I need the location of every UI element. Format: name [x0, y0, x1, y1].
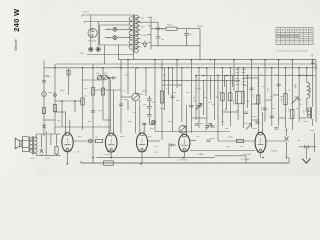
resistor R grid	[55, 147, 58, 155]
wire tube4-5 link	[218, 140, 255, 142]
wire v x56.5	[56, 134, 58, 156]
capacitor C band4	[274, 128, 278, 130]
wire v x128	[127, 60, 129, 110]
wire v x206.9	[206, 68, 208, 126]
svg-text:RGN354: RGN354	[88, 40, 97, 42]
wire v x238.1	[237, 68, 239, 120]
IF label column	[236, 69, 246, 85]
output transformer secondary	[35, 137, 38, 153]
wire hlink g2a	[162, 84, 182, 86]
wire hlink y120	[103, 119, 111, 121]
jack bars	[305, 145, 308, 149]
resistor R coup2	[236, 139, 243, 142]
wire v x210.5	[210, 76, 212, 101]
osc coil	[132, 93, 140, 101]
resistor R5	[101, 88, 104, 95]
resistor R bias	[104, 161, 114, 165]
wire tube3 right link	[148, 140, 160, 142]
resistor R2	[53, 105, 56, 112]
wire tube1 bottom	[67, 152, 69, 163]
svg-text:+300V: +300V	[197, 26, 204, 28]
wire box drop left	[104, 45, 106, 64]
resistor R7	[221, 93, 224, 101]
iron core coil	[307, 107, 311, 118]
wire v x203.5	[203, 80, 205, 115]
wire v x299.1	[298, 68, 300, 122]
RF coil L3	[307, 82, 310, 98]
wire v x191.3	[190, 60, 192, 133]
bus mid link	[162, 79, 240, 81]
wire hlink y90	[93, 89, 121, 91]
wire tube4 bottom	[183, 152, 185, 158]
wire transformer down	[133, 53, 135, 60]
wire v x172.5	[172, 68, 174, 132]
speaker magnet	[22, 137, 29, 152]
wire hlink g3h	[299, 117, 307, 119]
capacitor C12	[263, 108, 267, 110]
wire v x68.5	[68, 68, 70, 95]
wire v x218	[217, 76, 219, 142]
resistor R6	[160, 91, 163, 103]
tube socket table	[276, 28, 313, 45]
arrow over C9	[196, 103, 201, 109]
wire psu bottom edge	[87, 54, 134, 56]
wire grid box top/bottom	[37, 134, 61, 156]
wire box drop right	[118, 45, 120, 60]
wire grid line y127	[55, 126, 111, 128]
output transformer primary	[29, 137, 32, 153]
tube V4	[179, 132, 190, 152]
pot arrow right	[292, 97, 299, 104]
wire v x258.2	[257, 68, 259, 125]
antenna coil	[42, 92, 47, 97]
rectifier tube RGN354	[88, 28, 97, 37]
wire v x265	[264, 60, 266, 122]
capacitor C ant	[42, 81, 46, 83]
bus D chassis	[81, 161, 289, 163]
antenna lead	[43, 61, 45, 137]
tube V3	[136, 131, 147, 152]
capacitor C7	[170, 96, 174, 98]
pot arrow band	[246, 124, 252, 130]
wire psu return	[151, 29, 200, 60]
wire v x243.6	[243, 68, 245, 128]
dial lamp L2	[113, 36, 117, 40]
wire v x271.8	[271, 68, 273, 126]
transformer T1 secondary winding	[135, 15, 138, 53]
heater ground symbol	[143, 41, 147, 48]
wire hlink g3c	[299, 75, 313, 77]
capacitor C grid4	[169, 144, 176, 147]
wire v x314.5	[314, 133, 316, 152]
wire v x75	[74, 101, 76, 112]
capacitor C4	[91, 111, 95, 113]
svg-text:Mende: Mende	[14, 39, 18, 50]
wire box feeds	[46, 131, 55, 134]
capacitor C g3b	[270, 116, 274, 118]
tube V2	[105, 131, 117, 152]
svg-text:2x0,1: 2x0,1	[30, 158, 36, 160]
svg-text:C·43 GMT: C·43 GMT	[178, 160, 188, 162]
wire osc link	[121, 96, 132, 98]
detector X	[40, 149, 43, 153]
bus right edge	[315, 60, 317, 122]
wire v x285.5	[285, 68, 287, 128]
capacitor C8	[189, 105, 193, 107]
wire v x46.2	[45, 134, 47, 156]
wire v x103	[102, 68, 104, 120]
wire v x164.7	[164, 68, 166, 110]
junction dots y101	[61, 100, 63, 102]
wire tube5 right link	[266, 140, 285, 142]
wire v x230.3	[229, 68, 231, 126]
wire bracket right	[215, 156, 246, 163]
wire v x292.3	[291, 60, 293, 130]
resistor R3	[81, 98, 84, 105]
speaker	[15, 138, 22, 149]
wire v x234	[233, 60, 235, 91]
wire hlink y101	[55, 100, 83, 102]
svg-text:220V~: 220V~	[83, 12, 90, 14]
tube V1	[62, 131, 73, 152]
wire link ant	[44, 119, 55, 121]
trimmer X right	[285, 137, 289, 142]
capacitor C coup2	[206, 140, 210, 142]
shield box	[225, 76, 233, 88]
svg-text:220V: 220V	[80, 53, 85, 55]
switch contact X	[43, 125, 46, 129]
wire hlink y124	[149, 124, 155, 126]
wire mains L1	[82, 15, 129, 17]
output transformer core	[33, 136, 34, 154]
tuning gang 2	[179, 126, 186, 133]
scattered value labels	[47, 64, 315, 148]
resistor R8	[229, 93, 232, 101]
wire primary taps	[129, 15, 132, 45]
wire v x278.6	[278, 60, 280, 126]
wire tube4 right link	[190, 140, 196, 142]
trimmer disc	[88, 139, 92, 143]
capacitor C band1	[194, 124, 198, 126]
mains plug pin 1	[89, 47, 93, 51]
wire hlink g3b	[265, 99, 272, 101]
wire spk to OT	[29, 139, 32, 150]
capacitor C band2	[210, 126, 214, 128]
wire v x110.7	[110, 78, 112, 132]
wire tube5 top leads	[258, 76, 262, 133]
wire tube3 top leads	[140, 100, 144, 135]
switch point	[54, 94, 57, 97]
wire v x169 low	[168, 143, 170, 158]
wire lamp leads	[105, 29, 129, 37]
capacitor C5	[119, 104, 123, 106]
wire tube1-2 link	[73, 140, 105, 142]
wire v x247.5	[247, 76, 249, 109]
wire mains L2	[85, 22, 130, 24]
capacitor C band3	[255, 122, 259, 124]
svg-text:C 1 P: C 1 P	[75, 151, 81, 153]
label osc	[142, 91, 147, 92]
tube V5	[255, 130, 266, 152]
capacitor C10	[205, 126, 209, 128]
wire hlink g3e	[251, 103, 258, 105]
pot arrow	[206, 124, 212, 131]
IF transformer	[236, 91, 245, 104]
wire hlink y80	[83, 79, 104, 81]
bus AVC	[196, 75, 316, 77]
capacitor C9	[197, 105, 201, 107]
wire v x306.8	[306, 68, 308, 112]
resistor R screen	[67, 70, 70, 75]
wire tube1 top leads	[65, 112, 69, 134]
wire v x312.7	[312, 60, 314, 126]
resistor R11	[291, 110, 294, 119]
svg-text:1M: 1M	[140, 94, 143, 96]
wire hlink g2b	[191, 117, 207, 119]
resistor R10	[284, 94, 287, 105]
wire heater tube4-5	[190, 150, 255, 152]
bus A top	[119, 59, 317, 61]
capacitor series	[110, 76, 116, 79]
resistor R ant	[42, 108, 45, 114]
wire v x155	[154, 60, 156, 132]
junction blob	[108, 77, 110, 79]
svg-text:C·42 GMT: C·42 GMT	[242, 154, 252, 156]
trimmer circle	[151, 120, 155, 124]
wire v x168.5	[168, 68, 170, 95]
capacitor C11	[249, 88, 253, 90]
wire bus CD join	[288, 158, 289, 164]
wire v x226.4	[225, 80, 227, 110]
wire v x286.5	[286, 128, 288, 158]
switch box frame	[100, 25, 130, 45]
cap on heater bus	[311, 62, 314, 63]
wire v x137	[135, 68, 137, 133]
resistor R9	[257, 95, 260, 104]
wire hlink y131.5	[155, 131, 230, 133]
wire hlink g3f	[251, 119, 258, 121]
filter capacitor C2	[184, 29, 189, 46]
wire v x214.7	[214, 60, 216, 120]
resistor R v93	[91, 88, 94, 96]
capacitor C tube3 grid	[142, 123, 146, 125]
svg-text:G 145: G 145	[105, 154, 112, 156]
wire hlink g2c	[223, 111, 239, 113]
pickup arrow head	[302, 159, 310, 164]
wire tube4 top leads	[182, 105, 186, 135]
capacitor C13	[277, 84, 281, 86]
wire hlink g3g	[279, 117, 286, 119]
wire secondary taps	[135, 18, 140, 47]
tuning gang 1a	[97, 75, 102, 80]
pickup arrow stem	[305, 147, 307, 160]
wire HT vertical	[150, 17, 152, 50]
wire plug leads	[91, 15, 98, 47]
wire v x222.5	[222, 68, 224, 126]
wire v x196	[195, 76, 197, 121]
transformer T1 primary winding	[129, 17, 132, 50]
resistor choke Dr	[166, 27, 177, 30]
wire v x50.9	[50, 134, 52, 145]
wire out top	[299, 146, 316, 148]
wire v x146	[145, 68, 147, 96]
wire tube5 bottom	[260, 153, 262, 158]
svg-text:Geräteansicht von unten gesehe: Geräteansicht von unten gesehen	[277, 49, 308, 52]
svg-text:240 W: 240 W	[12, 8, 21, 32]
mains plug pin 2	[96, 47, 100, 51]
wire v x41.4	[40, 134, 42, 156]
dial lamp L1	[113, 27, 117, 31]
electrolytic chain	[147, 96, 152, 125]
wire B+ rail	[137, 22, 200, 28]
wire v x55	[54, 64, 56, 132]
speaker coil lines	[22, 141, 29, 148]
wire stub y76	[44, 75, 49, 77]
wire v x82.5	[82, 68, 84, 130]
wire sec to HT	[148, 18, 152, 43]
wire v x199	[198, 68, 200, 128]
tuning gang 1b	[103, 75, 108, 80]
svg-text:C·44 GMT: C·44 GMT	[240, 159, 250, 161]
wire v x251.4	[250, 60, 252, 128]
svg-text:Z4023: Z4023	[271, 150, 278, 152]
wire v x181.9	[181, 68, 183, 122]
wire tube3 bottom	[141, 152, 143, 163]
svg-text:2M: 2M	[216, 97, 219, 99]
wire v x162	[161, 60, 163, 140]
wire v x93	[92, 64, 94, 163]
svg-text:C1AB5: C1AB5	[197, 153, 204, 156]
wire tube1 grid link	[55, 111, 65, 113]
wire bus heater y64	[55, 64, 316, 70]
transformer T1 core	[133, 15, 134, 53]
rotated value labels right side	[194, 84, 311, 113]
filter capacitor C1	[156, 22, 161, 46]
wire v x121	[120, 60, 122, 133]
wire hlink g3a	[244, 77, 259, 79]
svg-text:2x300: 2x300	[141, 35, 148, 37]
wire tube2 top leads	[109, 78, 113, 134]
wire hlink g3d	[273, 94, 279, 96]
wire v x62	[61, 101, 63, 127]
capacitor C g3a	[244, 112, 248, 114]
wire v x177	[176, 60, 178, 88]
wire tube2 bottom	[110, 152, 112, 158]
bus C chassis	[97, 157, 216, 159]
bus B	[44, 67, 316, 69]
wire OT out	[35, 134, 37, 156]
resistor R coup1	[95, 139, 102, 142]
